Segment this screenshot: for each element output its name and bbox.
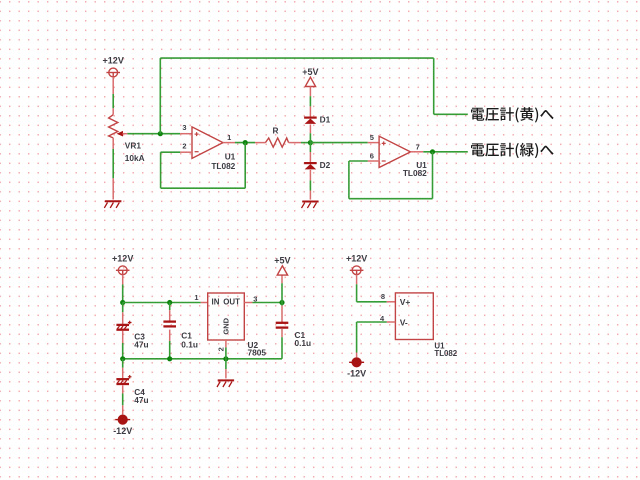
svg-text:1: 1: [227, 133, 231, 142]
potentiometer VR1: [109, 115, 128, 149]
svg-text:0.1u: 0.1u: [181, 339, 198, 349]
label U1 TL082 (U1A): [211, 151, 235, 171]
svg-text:0.1u: 0.1u: [295, 338, 312, 348]
label U1 TL082 (U1B): [403, 160, 427, 178]
svg-text:V+: V+: [400, 297, 411, 307]
svg-text:OUT: OUT: [223, 298, 240, 307]
svg-text:10kA: 10kA: [125, 153, 145, 163]
svg-text:R: R: [273, 125, 279, 135]
feedback wire U1A output to pin 2: [161, 143, 246, 189]
svg-text:IN: IN: [212, 298, 220, 307]
svg-text:-12V: -12V: [347, 369, 366, 379]
wire +12V down to input rail: [122, 275, 124, 303]
junction ground rail at 7805 GND: [223, 356, 228, 361]
capacitor C1 0.1u (output): [276, 303, 289, 359]
power flag +12V (U1 power): [346, 253, 367, 274]
svg-text:5: 5: [370, 133, 374, 142]
wire VR1 wiper to op-amp pin 3: [127, 133, 192, 135]
svg-text:+12V: +12V: [346, 253, 367, 263]
svg-text:+12V: +12V: [103, 56, 124, 66]
svg-text:V-: V-: [400, 318, 408, 328]
net label 電圧計(黄)へ: [471, 107, 554, 122]
power flag +12V (supply section): [112, 253, 133, 274]
svg-text:+5V: +5V: [302, 67, 318, 77]
net label 電圧計(緑)へ: [471, 143, 554, 158]
op-amp U1B TL082: [379, 136, 410, 167]
label VR1 10kA: [125, 141, 145, 164]
svg-text:2: 2: [182, 142, 186, 151]
svg-text:7805: 7805: [248, 348, 267, 358]
label C3 47u: [134, 332, 148, 350]
svg-text:1: 1: [194, 293, 198, 302]
svg-text:TL082: TL082: [434, 349, 457, 358]
svg-text:47u: 47u: [134, 339, 148, 349]
op-amp U1B output pin: [411, 151, 424, 153]
resistor R: [255, 138, 301, 147]
wire +5V to D1: [309, 87, 311, 118]
junction node at VR1 wiper: [158, 131, 163, 136]
wire D2 to ground: [309, 180, 311, 199]
svg-text:7: 7: [416, 142, 420, 151]
label U2 7805: [248, 340, 267, 358]
op-amp U1A pin 2 stub: [180, 151, 192, 153]
wire V- pin 4 to -12V: [357, 322, 396, 357]
power flag -12V (supply section): [113, 415, 132, 436]
feedback wire U1B output to pin 6: [349, 152, 433, 199]
junction input rail at C3: [120, 300, 125, 305]
junction diode clamp node: [308, 140, 313, 145]
svg-text:TL082: TL082: [403, 168, 427, 178]
wire 7805 OUT to +5V node: [244, 302, 282, 304]
svg-text:+5V: +5V: [274, 256, 290, 266]
diode D1: [304, 118, 317, 134]
op-amp U1B pin 6 stub: [368, 160, 379, 162]
capacitor C4 47u polarized: [116, 359, 131, 415]
svg-text:6: 6: [370, 151, 374, 160]
wire top rail to yellow output: [160, 58, 468, 114]
wire +5V node up to +5V flag: [281, 275, 283, 303]
svg-text:VR1: VR1: [125, 141, 142, 151]
power flag +12V top-left: [103, 56, 124, 77]
diode D2: [304, 163, 317, 180]
label C1 0.1u (output): [295, 330, 312, 348]
junction U1A output node: [243, 140, 248, 145]
svg-text:8: 8: [381, 292, 385, 301]
wire D1 to clamp node: [309, 133, 311, 142]
power flag +5V (supply section): [274, 256, 290, 276]
wire ground rail to ground symbol: [225, 359, 227, 379]
junction U1B output node: [430, 149, 435, 154]
wire R to clamp node: [301, 142, 310, 144]
voltage regulator U2 7805 box: [208, 293, 245, 340]
svg-text:GND: GND: [222, 317, 231, 334]
7805 GND pin wire: [225, 340, 227, 359]
power flag +5V (clamp): [302, 67, 318, 87]
label U1 TL082 (power): [434, 341, 457, 358]
junction ground rail at C1: [167, 356, 172, 361]
wire clamp node to D2: [309, 143, 311, 163]
svg-text:TL082: TL082: [211, 161, 235, 171]
junction +5V node: [279, 300, 284, 305]
ground rail (supply bottom): [123, 358, 282, 360]
wire VR1 bottom to ground: [112, 149, 114, 200]
op-amp U1A output pin: [223, 142, 235, 144]
svg-text:D2: D2: [320, 160, 331, 170]
ground under 7805: [217, 380, 234, 387]
ground under VR1: [104, 201, 121, 208]
junction input rail at C1: [167, 300, 172, 305]
label C1 0.1u (input): [181, 331, 198, 350]
wire U1B output to green label: [423, 151, 468, 153]
power flag -12V (U1 power): [347, 357, 366, 378]
svg-text:D1: D1: [320, 114, 331, 124]
capacitor C1 0.1u (input): [163, 303, 176, 359]
svg-text:47u: 47u: [134, 395, 148, 405]
svg-text:U1: U1: [225, 151, 236, 161]
wire input rail to 7805 IN: [123, 302, 208, 304]
wire +12V to VR1: [112, 77, 114, 115]
wire wiper node up to top rail: [159, 58, 161, 134]
label C4 47u: [134, 387, 148, 405]
wire U1A output to R: [235, 142, 255, 144]
wire clamp node to op-amp pin 5: [310, 142, 379, 144]
junction ground rail at C3: [120, 356, 125, 361]
op-amp U1A TL082: [192, 127, 223, 158]
svg-text:+12V: +12V: [112, 253, 133, 263]
capacitor C3 47u polarized: [116, 303, 131, 359]
U1 power box: [395, 293, 433, 340]
svg-text:3: 3: [182, 123, 186, 132]
svg-text:-12V: -12V: [113, 426, 132, 436]
ground under D2: [302, 202, 319, 209]
svg-text:2: 2: [216, 347, 225, 351]
wire +12V to V+ pin 8: [357, 275, 396, 302]
